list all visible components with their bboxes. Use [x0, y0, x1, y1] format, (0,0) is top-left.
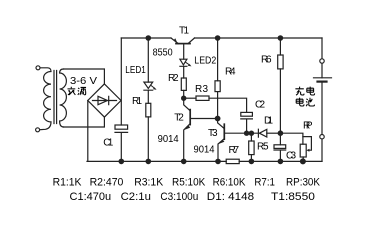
svg-text:C3:100u: C3:100u: [160, 191, 198, 203]
svg-text:C1:470u: C1:470u: [70, 191, 112, 203]
transformer primary terminal bottom: [36, 128, 40, 132]
wire node to R3: [184, 97, 196, 99]
svg-text:RP:30K: RP:30K: [286, 176, 321, 188]
transistor Q T1: [176, 43, 190, 45]
resistor R5: [250, 133, 252, 141]
resistor R2: [181, 78, 186, 90]
svg-text:9014: 9014: [158, 134, 179, 145]
resistor R1: [146, 103, 151, 117]
battery terminal circle top: [320, 59, 324, 63]
svg-text:R6: R6: [261, 54, 272, 65]
svg-text:D1: D1: [264, 116, 273, 127]
svg-text:T3: T3: [208, 128, 218, 139]
LED2 emission arrow: [186, 63, 190, 66]
bridge inner diode: [93, 96, 117, 104]
svg-text:R1:1K: R1:1K: [53, 176, 83, 188]
LED D LED1: [144, 82, 153, 103]
capacitor C2: [241, 112, 253, 116]
node R5 top: [249, 131, 254, 136]
battery terminal circle bottom: [320, 135, 324, 139]
svg-text:R2: R2: [168, 73, 179, 84]
wire LED1 branch: [147, 38, 149, 82]
node R6 top rail: [278, 35, 284, 41]
svg-text:C2: C2: [255, 99, 265, 110]
node R1 bottom rail: [146, 159, 152, 165]
svg-text:C1: C1: [103, 137, 113, 148]
node R2/R3/T2 collector: [181, 96, 186, 101]
capacitor C1: [115, 125, 128, 129]
bottom rail: [87, 160, 322, 162]
transistor Q T2: [184, 98, 191, 111]
resistor R7: [226, 159, 239, 163]
wire R3 to C2 corner: [209, 98, 247, 112]
svg-text:RP: RP: [303, 121, 313, 132]
wire AC bottom: secondary bottom to bridge bottom corner: [64, 117, 105, 127]
wire AC top: secondary top to bridge top corner: [64, 69, 105, 84]
battery cell plates: [314, 77, 332, 79]
svg-text:T1: T1: [179, 26, 189, 37]
svg-text:C3: C3: [286, 151, 296, 162]
svg-text:C2:1u: C2:1u: [121, 191, 151, 203]
svg-text:R5: R5: [257, 141, 269, 152]
diode D1: [258, 129, 266, 137]
transformer secondary winding: [60, 69, 67, 127]
svg-text:R5:10K: R5:10K: [172, 176, 206, 188]
svg-text:T1:8550: T1:8550: [271, 191, 315, 203]
wire DC minus: bridge left corner down to bottom rail: [87, 101, 89, 162]
svg-text:9014: 9014: [194, 144, 215, 155]
node LED1 top rail: [146, 35, 152, 41]
node D1/R6/C3/RP: [278, 130, 284, 136]
node R5 bottom rail: [249, 159, 255, 165]
wire DC plus: bridge right corner up to top rail: [120, 38, 122, 125]
transformer primary terminal top: [36, 66, 40, 70]
potentiometer RP: [280, 133, 303, 144]
node T2 base / R4 / T3 collector: [215, 116, 221, 122]
svg-text:R7:1: R7:1: [254, 176, 275, 188]
LED D LED2: [180, 59, 187, 78]
wire top rail right segment: [195, 37, 323, 39]
svg-text:R6:10K: R6:10K: [213, 176, 246, 188]
resistor R6: [279, 38, 281, 55]
svg-text:R3: R3: [195, 84, 208, 95]
transformer primary winding: [40, 68, 51, 130]
label battery chinese 充电 电池: [295, 87, 314, 107]
svg-text:LED1: LED1: [125, 65, 146, 76]
svg-text:R7: R7: [229, 145, 240, 156]
resistor R3: [196, 96, 209, 100]
svg-text:R2:470: R2:470: [90, 176, 124, 188]
svg-text:D1: 4148: D1: 4148: [207, 191, 254, 203]
LED1 emission arrow: [151, 85, 155, 88]
resistor R4: [217, 38, 219, 81]
svg-text:R3:1K: R3:1K: [134, 176, 164, 188]
bridge rectifier diamond: [88, 84, 121, 117]
node R4 top rail: [215, 35, 221, 41]
wire top rail left segment: [121, 37, 171, 39]
svg-text:R1: R1: [132, 96, 142, 107]
svg-text:8550: 8550: [153, 48, 173, 59]
transistor Q T3: [218, 119, 225, 129]
svg-text:T2: T2: [174, 112, 184, 123]
label AC chinese 交流: [67, 87, 86, 95]
capacitor C3: [279, 133, 281, 145]
transformer core: [54, 71, 57, 124]
node T3 emitter bottom rail: [215, 159, 221, 165]
svg-text:LED2: LED2: [194, 56, 216, 67]
node RP bottom rail: [300, 158, 306, 164]
node C2 bottom: [244, 131, 249, 136]
node C3 bottom rail: [278, 159, 284, 165]
svg-text:R4: R4: [225, 67, 236, 78]
node T2 emitter bottom rail: [181, 159, 187, 165]
svg-text:3-6 V: 3-6 V: [70, 76, 97, 87]
node C1 bottom rail: [119, 159, 125, 165]
battery branch right: [321, 38, 323, 161]
